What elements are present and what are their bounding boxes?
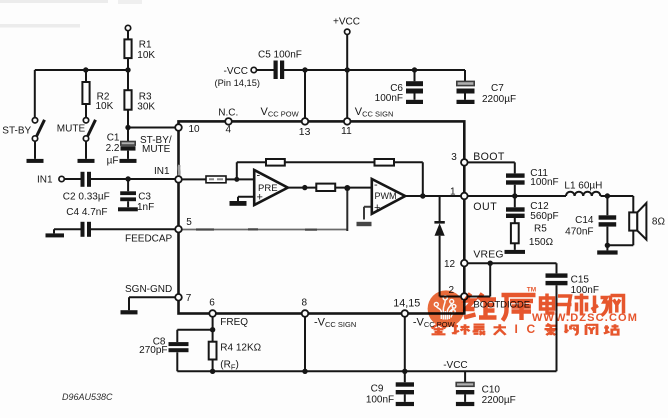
- svg-text:ST-BY: ST-BY: [2, 126, 31, 137]
- svg-text:150Ω: 150Ω: [529, 237, 554, 248]
- svg-text:C4 4.7nF: C4 4.7nF: [66, 207, 107, 218]
- svg-text:6: 6: [209, 297, 215, 308]
- svg-text:+: +: [374, 202, 380, 214]
- svg-text:C15: C15: [571, 274, 590, 285]
- svg-text:C14: C14: [575, 215, 594, 226]
- svg-text:-: -: [257, 170, 261, 182]
- svg-text:560pF: 560pF: [530, 211, 558, 222]
- svg-text:-: -: [374, 179, 378, 191]
- svg-text:2.2: 2.2: [106, 143, 120, 154]
- svg-text:+VCC: +VCC: [333, 17, 360, 28]
- svg-text:100nF: 100nF: [571, 285, 599, 296]
- svg-text:C5 100nF: C5 100nF: [258, 50, 302, 61]
- svg-text:30K: 30K: [137, 102, 155, 113]
- svg-text:L1 60µH: L1 60µH: [564, 181, 602, 192]
- svg-text:100nF: 100nF: [375, 93, 403, 104]
- svg-text:10K: 10K: [96, 101, 114, 112]
- svg-text:VREG: VREG: [473, 250, 503, 261]
- svg-text:12: 12: [444, 259, 456, 270]
- svg-text:BOOT: BOOT: [473, 151, 505, 163]
- svg-text:C10: C10: [482, 384, 501, 395]
- svg-text:WWW.DZSC.COM: WWW.DZSC.COM: [532, 312, 638, 324]
- svg-text:3: 3: [451, 152, 457, 163]
- svg-text:470nF: 470nF: [565, 227, 593, 238]
- svg-text:FREQ: FREQ: [220, 317, 248, 328]
- svg-text:OUT: OUT: [473, 201, 497, 213]
- svg-text:10K: 10K: [137, 50, 155, 61]
- svg-text:(Pin 14,15): (Pin 14,15): [215, 78, 260, 88]
- svg-text:7: 7: [186, 293, 192, 304]
- svg-text:8: 8: [302, 297, 308, 308]
- svg-text:13: 13: [299, 127, 311, 138]
- svg-text:100nF: 100nF: [366, 395, 394, 406]
- svg-text:14,15: 14,15: [393, 297, 420, 309]
- svg-text:10: 10: [189, 124, 201, 135]
- svg-text:-VCC: -VCC: [224, 66, 248, 77]
- svg-text:8Ω: 8Ω: [652, 217, 666, 228]
- svg-text:11: 11: [341, 126, 352, 137]
- svg-text:MUTE: MUTE: [57, 124, 86, 135]
- svg-text:C9: C9: [371, 384, 384, 395]
- svg-text:FEEDCAP: FEEDCAP: [125, 233, 173, 244]
- svg-text:270pF: 270pF: [139, 345, 167, 356]
- svg-text:R4 12KΩ: R4 12KΩ: [220, 342, 261, 353]
- svg-text:µF: µF: [107, 155, 119, 166]
- svg-text:100nF: 100nF: [530, 177, 558, 188]
- svg-text:MUTE: MUTE: [142, 144, 171, 155]
- svg-text:C2 0.33µF: C2 0.33µF: [63, 192, 110, 203]
- svg-text:(RF): (RF): [220, 359, 239, 371]
- svg-text:1: 1: [450, 187, 456, 198]
- svg-text:R1: R1: [139, 40, 152, 51]
- svg-text:R5: R5: [534, 224, 547, 235]
- svg-text:TM: TM: [527, 287, 536, 294]
- svg-text:4: 4: [226, 125, 232, 136]
- svg-text:IN1: IN1: [154, 166, 170, 177]
- svg-text:2200µF: 2200µF: [482, 395, 516, 406]
- svg-text:5: 5: [186, 217, 192, 228]
- svg-text:1nF: 1nF: [137, 202, 154, 213]
- svg-text:N.C.: N.C.: [218, 107, 238, 118]
- svg-text:I: I: [515, 322, 518, 336]
- svg-text:D96AU538C: D96AU538C: [62, 392, 113, 402]
- svg-text:IN1: IN1: [37, 174, 53, 185]
- svg-text:PWM: PWM: [375, 191, 397, 201]
- svg-text:C: C: [527, 322, 536, 336]
- svg-text:SGN-GND: SGN-GND: [125, 284, 172, 295]
- svg-text:-VCC: -VCC: [443, 360, 467, 371]
- svg-text:C3: C3: [138, 192, 151, 203]
- svg-text:2200µF: 2200µF: [482, 94, 516, 105]
- svg-text:+: +: [257, 191, 263, 203]
- svg-text:C7: C7: [491, 83, 504, 94]
